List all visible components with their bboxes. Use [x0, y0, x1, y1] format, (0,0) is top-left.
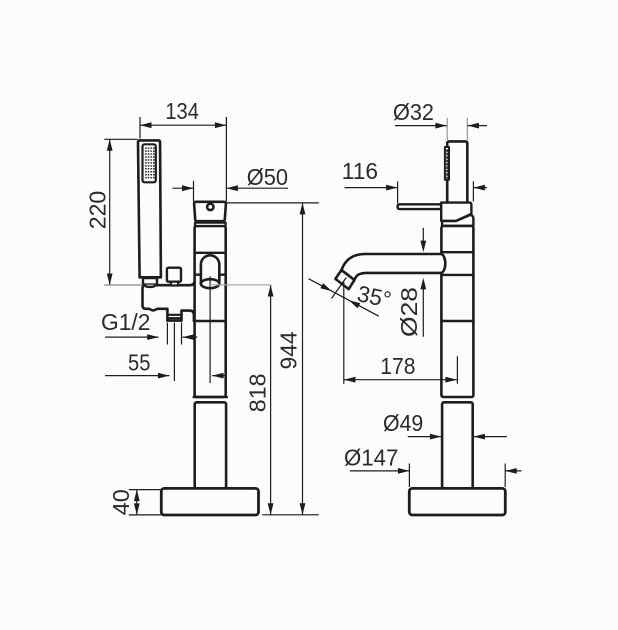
dim Ø147 line [350, 470, 522, 472]
hand shower connector cap [144, 285, 156, 287]
dim Ø49 line [408, 436, 507, 438]
diverter knob [167, 268, 181, 282]
hand shower connector nut [143, 278, 157, 285]
svg-text:Ø49: Ø49 [383, 410, 423, 436]
svg-text:220: 220 [84, 191, 110, 230]
svg-text:G1/2: G1/2 [101, 309, 150, 335]
dim Ø50 extension line [193, 181, 195, 202]
dim Ø28 arrow lines [422, 228, 424, 337]
column (side) [441, 226, 473, 397]
arrows 818 [268, 285, 274, 297]
lever bar [398, 204, 442, 209]
arrows Ø50 [182, 185, 194, 191]
hand shower face plate [143, 144, 156, 182]
arrows Ø147 [398, 468, 410, 474]
svg-text:178: 178 [380, 353, 415, 379]
dim 818 line [270, 285, 272, 515]
nozzle face slash [332, 278, 347, 299]
dim 116 line [345, 187, 488, 189]
reference line (gray) spout height [104, 284, 270, 286]
arrows 40 [134, 490, 140, 502]
diverter knob neck [171, 282, 178, 286]
svg-text:818: 818 [244, 374, 270, 413]
dim 134 extension lines [140, 117, 226, 202]
svg-text:40: 40 [108, 489, 134, 515]
svg-text:Ø32: Ø32 [393, 99, 434, 125]
nozzle extension line [343, 282, 345, 384]
column centerline (side) [456, 356, 458, 384]
spout tube (side) [342, 254, 446, 280]
dim 40 extension lines [129, 490, 161, 515]
svg-text:116: 116 [342, 158, 378, 184]
svg-text:55: 55 [128, 350, 150, 376]
arrows Ø32 [435, 123, 447, 129]
hand shower (side) [447, 141, 467, 203]
arrows Ø28 [420, 241, 426, 253]
column section line B (side) [441, 274, 473, 276]
arrows 55 [158, 373, 170, 379]
dim 944 extension lines [226, 203, 318, 515]
dim 134 line [140, 124, 226, 126]
dim 55 line [105, 375, 226, 377]
lever body [441, 203, 471, 221]
arrows 220 [107, 139, 113, 151]
cap ring band [195, 223, 226, 226]
dim Ø147 extension lines [409, 464, 505, 488]
dim 178 line [344, 379, 457, 381]
spray plate (side) [445, 147, 449, 180]
dim 944 line [302, 203, 304, 515]
dim Ø32 line [395, 125, 487, 127]
svg-text:Ø28: Ø28 [396, 287, 422, 337]
dim 220 extension lines [104, 139, 146, 285]
arrows 116 [386, 185, 398, 191]
dim 116 extension lines [398, 181, 474, 203]
lower tube (side) [442, 402, 473, 488]
arrows 944 [300, 203, 306, 215]
column section line C [194, 320, 226, 322]
arrows G1/2 [147, 334, 159, 340]
column cap [194, 202, 226, 221]
cartridge ring [442, 215, 473, 226]
column section line C (side) [441, 320, 473, 322]
dim 220 line [109, 139, 111, 285]
arrows 134 [140, 122, 152, 128]
arrows 35° [320, 283, 332, 291]
dim 35° line [309, 279, 379, 317]
svg-text:944: 944 [276, 331, 302, 369]
cap screw hole [207, 204, 213, 210]
column section line A (side) [441, 251, 473, 253]
spout nozzle collar [335, 270, 354, 289]
base flange (side) [409, 488, 505, 515]
spray dots (side) [446, 150, 448, 178]
base flange [161, 488, 258, 515]
upper tube bottom edge [194, 396, 227, 399]
dim G1/2 extension lines [167, 323, 181, 382]
spout cylinder (front) [201, 255, 219, 283]
dim 40 line [136, 490, 138, 515]
dim Ø32 extension lines [447, 118, 467, 140]
dim G1/2 line [105, 336, 197, 338]
arrows Ø49 [430, 434, 442, 440]
arrows 178 [344, 377, 356, 383]
lower tube [195, 402, 226, 488]
svg-text:134: 134 [165, 98, 199, 124]
spout outlet ellipse [201, 279, 219, 288]
hand shower spray dots [145, 147, 155, 180]
column section line A [195, 252, 226, 254]
column section line B [195, 274, 226, 276]
G1/2 nut thread lines [167, 315, 181, 318]
dim Ø50 line [173, 187, 289, 189]
elbow body (hose/diverter housing) [143, 280, 195, 321]
column centerline [209, 276, 211, 383]
column main body [195, 226, 226, 397]
svg-text:Ø147: Ø147 [344, 444, 398, 470]
svg-text:Ø50: Ø50 [247, 164, 288, 190]
hand shower wand [138, 140, 161, 277]
